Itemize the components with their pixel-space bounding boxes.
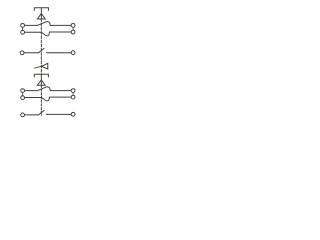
wire row3 left: [24, 52, 38, 54]
actuator handle S2 T-bar: [34, 74, 48, 85]
wire row4 right: [50, 90, 71, 92]
contact row4 left terminal: [21, 89, 25, 93]
wire row4 left: [25, 90, 38, 92]
latch triangle (left-pointing) on linkage: [42, 63, 48, 69]
wire row6 right: [46, 113, 71, 115]
terminal link stub rows4-5 right: [72, 93, 74, 95]
contact row3 left terminal: [20, 51, 24, 55]
contact row6 left terminal: [21, 113, 25, 117]
contact row2 right terminal: [71, 30, 75, 34]
contact row3 blade (NO): [39, 48, 45, 52]
contact row5 left terminal: [21, 96, 25, 100]
wire row1 right: [50, 24, 71, 26]
wire row3 right: [46, 52, 71, 54]
contact row2 blade (NC hook): [42, 32, 50, 36]
mechanical linkage dashed line (bottom group): [40, 85, 42, 115]
contact row1 left terminal: [21, 23, 25, 27]
wire row5 right: [49, 96, 71, 98]
contact row2 left terminal: [21, 30, 25, 34]
terminal link stub rows1-2 right: [72, 27, 74, 29]
wire row2 right: [49, 31, 71, 33]
contact row6 blade (NO): [39, 111, 44, 115]
actuator triangle (mechanical link) top: [37, 14, 45, 20]
actuator triangle (mechanical link) bottom: [37, 80, 45, 85]
terminal link stub rows4-5 left: [22, 93, 24, 96]
wire row1 left: [25, 24, 38, 26]
contact row6 right terminal: [71, 112, 75, 116]
contact row4 blade (NC hook): [38, 87, 51, 91]
contact row1 right terminal: [71, 23, 75, 27]
wire row6 left: [25, 114, 39, 116]
wire row2 left: [25, 31, 42, 33]
terminal link stub rows1-2 left: [22, 27, 24, 30]
contact row5 blade (NC hook): [42, 97, 50, 101]
wire row5 left: [25, 97, 42, 99]
latch lever: [35, 66, 42, 68]
contact row4 right terminal: [71, 89, 75, 93]
actuator handle S1 T-bar: [34, 8, 48, 19]
contact row5 right terminal: [71, 95, 75, 99]
contact row3 right terminal: [71, 51, 75, 55]
mechanical linkage dashed line (top group): [40, 19, 42, 74]
contact row1 blade (NC hook): [38, 21, 51, 25]
